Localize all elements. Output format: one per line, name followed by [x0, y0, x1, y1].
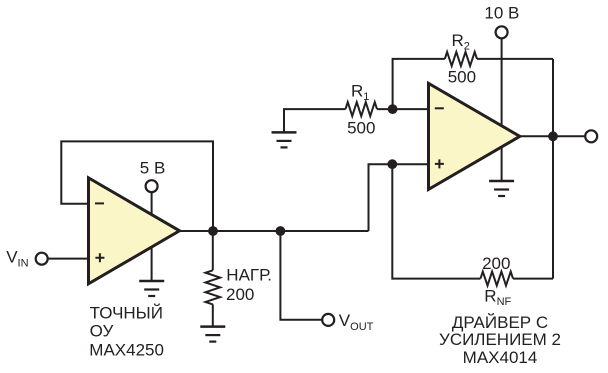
wire: load resistor bottom lead — [212, 304, 214, 326]
wire: VOUT branch — [280, 231, 322, 320]
svg-text:500: 500 — [347, 119, 375, 138]
ground (U2 negative supply) — [489, 181, 514, 196]
svg-text:10 В: 10 В — [484, 4, 519, 23]
svg-text:200: 200 — [226, 285, 254, 304]
wire: R1 left lead and ground stem — [284, 109, 346, 132]
junction node: VOUT tap — [276, 226, 286, 236]
wire: U2 + node down to RNF bottom run — [392, 164, 480, 278]
U1 inverting input minus mark — [95, 202, 104, 204]
U2 non-inverting input plus mark — [435, 159, 444, 168]
op-amp U2 MAX4014 — [429, 83, 520, 189]
svg-text:MAX4014: MAX4014 — [463, 348, 538, 367]
svg-text:НАГР.: НАГР. — [226, 266, 272, 285]
ground (R1) — [272, 132, 297, 147]
svg-text:ТОЧНЫЙ: ТОЧНЫЙ — [90, 304, 163, 323]
wire: R1 right lead to U2 inverting input — [377, 108, 429, 110]
wire: VIN terminal to U1 non-inverting input — [48, 258, 89, 260]
wire: U1 feedback loop (output to inverting input) — [61, 141, 213, 231]
svg-text:MAX4250: MAX4250 — [89, 341, 164, 360]
junction node: U2 inverting input — [388, 104, 398, 114]
resistor load 200 (vertical zigzag) — [206, 270, 221, 304]
terminal: 10V supply — [496, 26, 508, 38]
svg-text:5 В: 5 В — [140, 158, 166, 177]
terminal: 5V supply — [146, 180, 158, 192]
wire: 10V supply stem down through U2 to ground — [501, 39, 503, 181]
wire: U1 output bus — [180, 230, 369, 232]
svg-text:200: 200 — [482, 254, 510, 273]
junction node: U1 output / feedback — [208, 226, 218, 236]
wire: R2 left lead from inverting node — [393, 59, 445, 109]
svg-text:УСИЛЕНИЕМ 2: УСИЛЕНИЕМ 2 — [439, 330, 561, 349]
U1 non-inverting input plus mark — [95, 253, 104, 262]
wire: U1 5V supply stem down through U1 to ground — [151, 192, 153, 281]
ground (U1 negative supply) — [139, 281, 164, 296]
resistor RNF 200 (zigzag) — [481, 272, 514, 286]
wire: R2 right lead — [477, 58, 553, 60]
junction node: U2 output — [548, 131, 558, 141]
ground (load resistor) — [200, 327, 225, 342]
resistor R1 500 (zigzag) — [346, 102, 378, 116]
svg-text:ОУ: ОУ — [90, 321, 114, 340]
wire: RNF right lead to output vertical — [513, 278, 553, 280]
op-amp U1 MAX4250 — [89, 178, 180, 284]
wire: riser to U2 non-inverting input — [369, 164, 429, 231]
wire: U2 output lead — [520, 135, 585, 137]
junction node: U2 non-inverting input — [387, 159, 397, 169]
terminal: output — [585, 130, 597, 142]
U2 inverting input minus mark — [435, 107, 444, 109]
resistor R2 500 (zigzag) — [445, 52, 477, 66]
terminal: VIN — [36, 253, 48, 265]
svg-text:500: 500 — [448, 68, 476, 87]
terminal: VOUT — [322, 314, 334, 326]
wire: U2 output/feedback vertical — [552, 59, 554, 279]
wire: load resistor top lead — [212, 231, 214, 270]
